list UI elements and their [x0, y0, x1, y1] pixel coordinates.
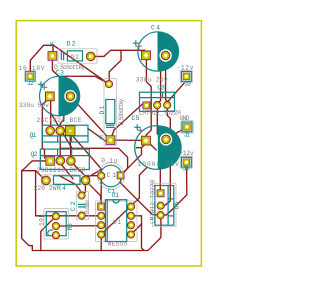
plus mark C4	[133, 40, 139, 46]
pad D1 anode	[105, 80, 112, 87]
pad U3 pin3	[164, 102, 171, 109]
capacitor C2 plates	[78, 203, 86, 205]
wire R6 top pad to bottom rail	[41, 216, 56, 250]
wire C1 left pad down to U1 pin1	[100, 179, 102, 204]
pad R4 right	[81, 176, 90, 185]
svg-text:330u 25v: 330u 25v	[136, 77, 168, 84]
pad J4	[182, 157, 192, 167]
svg-text:C5: C5	[132, 115, 140, 122]
IC U1 body	[105, 200, 126, 242]
transistor Q1 body	[42, 125, 88, 142]
wire U1 pin7 to bottom rail	[131, 216, 144, 251]
svg-text:U1: U1	[113, 219, 121, 226]
wire C3 plus down to Q1 pad1	[50, 101, 52, 130]
wire C4 minus to U3 pin3	[166, 60, 168, 101]
pad U1 pin1	[98, 203, 105, 210]
svg-text:K: K	[50, 42, 54, 49]
outline R6 docu	[44, 209, 69, 240]
capacitor C4 body	[158, 32, 180, 71]
pad J3	[182, 72, 192, 82]
pad Q1 pin3	[65, 126, 75, 136]
wire U3 pin2 to C5 minus	[157, 109, 165, 139]
pad U1 pin7	[127, 212, 134, 219]
pad C4 minus	[161, 51, 170, 60]
wire C3 minus to D1 cathode K	[70, 96, 110, 140]
pad C3 plus	[45, 92, 54, 101]
svg-text:K: K	[99, 135, 103, 142]
wire branch to C3 minus pad	[59, 76, 71, 96]
wire J4 to U5 pin3	[161, 167, 187, 216]
wire Q1 pad2 to Q2 pad2	[59, 131, 61, 161]
wire U1 pin4 to pin8 diagonal	[101, 206, 131, 235]
svg-text:J4: J4	[183, 165, 190, 172]
pad U1 pin4	[98, 231, 105, 238]
svg-text:NE555: NE555	[108, 240, 128, 247]
pad U5 pin1	[157, 190, 164, 197]
wire J1 to U3 pin3 net	[170, 127, 187, 137]
wire C4 minus to U3 pin2	[158, 60, 161, 104]
wire C1 square pad up to C5 plus area	[121, 148, 142, 176]
wire Q2 pad3 to R4 right pad	[71, 162, 86, 181]
diode D2 body	[67, 51, 82, 61]
pad D2 cathode	[48, 52, 57, 61]
svg-text:1000u 25V: 1000u 25V	[138, 161, 180, 168]
svg-text:2SB1218_BCER: 2SB1218_BCER	[37, 167, 86, 174]
pad Q1 pin2	[56, 126, 65, 135]
svg-text:220 2W: 220 2W	[34, 185, 57, 192]
wire D2 pad1 down and east to D1 anode	[52, 58, 109, 84]
outline D1 docu	[104, 79, 117, 146]
pad Q2 pin2	[56, 156, 65, 165]
svg-text:U1: U1	[112, 192, 120, 199]
wire K pad to U3 pin1	[111, 104, 147, 140]
svg-text:LM7812_TO220: LM7812_TO220	[149, 180, 156, 224]
wire into D1 K pad from Q1	[88, 129, 111, 142]
wire C5 area to U5 pin1	[159, 168, 161, 189]
diode D1 body	[106, 100, 115, 124]
wire C3 plus branch to Q2 pad1	[42, 101, 46, 159]
svg-text:C1: C1	[107, 172, 117, 179]
pad C1 right	[117, 172, 124, 179]
pad U1 pin5	[127, 231, 134, 238]
svg-text:J3: J3	[184, 81, 191, 88]
pad C2 top	[78, 192, 85, 199]
svg-text:+12v: +12v	[179, 150, 194, 157]
wire U1 pin4 to bottom rail	[100, 234, 102, 250]
outline C1 docu	[98, 163, 125, 190]
pad Q2 pin3	[67, 157, 76, 166]
pad Q2 pin1	[46, 157, 55, 166]
wire R4 right pad up to C1 left net	[88, 170, 102, 178]
capacitor C1 body	[100, 165, 122, 187]
wire D1 anode up to D2 net	[109, 50, 121, 84]
svg-text:R6: R6	[67, 223, 74, 230]
svg-text:R4: R4	[57, 185, 66, 192]
pad C5 minus	[162, 135, 171, 144]
pad U1 pin8	[127, 203, 134, 210]
svg-text:-12v: -12v	[177, 65, 194, 72]
wire crossing R4 body to C2 top	[58, 175, 81, 196]
pad U1 pin2	[98, 212, 105, 219]
svg-text:0.01u: 0.01u	[84, 200, 91, 214]
wire R6 middle pad to U1 pin3	[56, 225, 101, 227]
wire U3 pin3 down to U5 pin2	[161, 109, 171, 206]
pad R6 pin3	[52, 232, 59, 239]
svg-text:D_Schottky: D_Schottky	[118, 98, 125, 125]
pad R6 pin2	[52, 222, 59, 229]
svg-text:LM7912_TO220: LM7912_TO220	[139, 109, 181, 116]
svg-text:J1: J1	[184, 131, 191, 138]
board outline frame	[16, 21, 201, 266]
pad U3 pin2	[154, 102, 161, 109]
wire C1 left pad to Q2 pad3 net	[85, 175, 101, 177]
pad C3 minus	[66, 92, 75, 101]
wire C3 area down through fill to Q1 pad2	[59, 76, 64, 130]
svg-text:C3: C3	[56, 69, 65, 76]
pad U1 pin3	[98, 222, 105, 229]
svg-text:16-18V: 16-18V	[19, 65, 45, 72]
svg-text:D2: D2	[67, 41, 76, 48]
pad U5 pin2	[157, 202, 164, 209]
svg-text:Q1: Q1	[30, 132, 37, 139]
wire C4 plus down to C5 plus	[146, 60, 151, 138]
pad R4 left	[42, 176, 51, 185]
pad U3 pin1	[143, 102, 150, 109]
wire D2 anode to C4 plus	[91, 50, 146, 56]
transistor Q2 body	[40, 149, 89, 169]
pad C1 left	[98, 172, 105, 179]
outline J3 docu	[180, 70, 192, 82]
pad U5 pin3	[157, 212, 164, 219]
svg-text:0.1u: 0.1u	[101, 157, 117, 164]
pad D2 anode	[86, 52, 95, 61]
wire C5 plus stub into fill	[149, 143, 157, 150]
wire J2 to D2 pad1	[30, 45, 53, 76]
pad D1 cathode K	[106, 136, 115, 145]
wire Q1 square pad to Q2 pad3	[69, 134, 72, 161]
resistor R4 body	[54, 176, 81, 185]
wire diagonal D2 area to D1 anode	[53, 45, 109, 84]
wire J3 to U3 pin3	[168, 81, 186, 102]
wire Q1 square pad to C1 left pad	[71, 134, 102, 176]
outline U5 docu	[153, 183, 177, 227]
outline D2 docu	[58, 49, 97, 63]
white gap C3 minus	[64, 90, 76, 102]
wire Q2 pad2 over to C1 square pad	[60, 148, 127, 175]
wire R4 right pad down to C2 top	[81, 183, 85, 196]
svg-text:J2: J2	[27, 80, 34, 87]
white gap C5 minus	[160, 133, 172, 145]
svg-text:2SC1826_BCE: 2SC1826_BCE	[37, 117, 82, 124]
pad C5 plus	[142, 136, 151, 145]
pad C4 plus	[142, 51, 151, 60]
wire junction into C5 plus	[142, 143, 147, 148]
wire C1 square pad down to U5 pin3	[121, 179, 161, 215]
pad J1	[182, 122, 192, 132]
wire R4 right pad to U1 pin1	[85, 180, 101, 203]
white gap C4 minus	[159, 49, 171, 61]
plus mark C3	[38, 81, 44, 87]
wire U1 pin8 up to C4 plus net	[131, 168, 146, 206]
wire K pad to C5 plus	[111, 139, 147, 141]
svg-text:C2: C2	[70, 201, 77, 211]
svg-text:Q2: Q2	[31, 151, 38, 158]
pad U1 pin6	[127, 222, 134, 229]
svg-text:D1: D1	[99, 105, 106, 114]
svg-text:D2: D2	[71, 54, 79, 61]
outline R4 docu	[42, 175, 91, 185]
regulator U3 body	[140, 92, 175, 111]
capacitor C5 body	[158, 126, 182, 170]
wire U1 pin5 to pin7 net	[131, 224, 142, 235]
svg-text:U5: U5	[174, 201, 181, 209]
svg-text:U3: U3	[157, 84, 165, 91]
capacitor C3 body	[59, 76, 81, 116]
regulator U5 body	[155, 186, 174, 226]
wire left rail Q2 pad1 to bottom rail to U5 pin3	[22, 161, 161, 251]
svg-text:GND: GND	[180, 115, 190, 122]
svg-text:330u 50v: 330u 50v	[19, 102, 49, 109]
svg-text:C4: C4	[151, 24, 160, 31]
trimmer R6 body	[46, 212, 66, 236]
pad C2 bottom	[78, 212, 85, 219]
wire crossing Q1 body	[51, 113, 72, 148]
outline J1 docu	[181, 121, 193, 133]
outline U1 docu	[96, 201, 138, 242]
plus mark C5	[134, 124, 140, 130]
pad R6 pin1	[52, 213, 59, 220]
wire R4 left pad to left rail	[22, 171, 46, 181]
outline J4 docu	[180, 156, 192, 168]
wire down to U1 pin2 via C2 bottom	[36, 171, 102, 216]
svg-text:10k: 10k	[39, 214, 46, 226]
outline C2 docu	[76, 191, 88, 220]
pad Q1 pin1	[46, 126, 55, 135]
pad J2	[25, 71, 35, 81]
wire Q2 pad2 stub to R4 body	[60, 163, 73, 179]
